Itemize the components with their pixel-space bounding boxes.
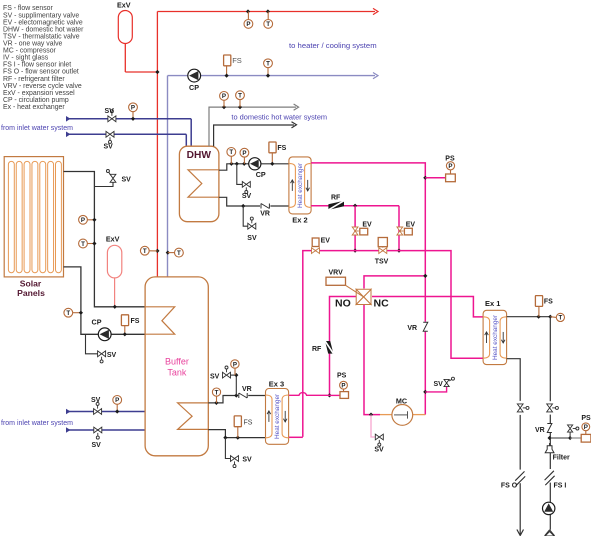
svg-text:PS: PS (337, 373, 347, 380)
svg-text:TSV - thermalstatic valve: TSV - thermalstatic valve (3, 33, 80, 40)
svg-text:Filter: Filter (553, 455, 570, 462)
svg-text:T: T (177, 250, 181, 257)
svg-text:P: P (81, 217, 85, 224)
svg-text:VR: VR (242, 386, 252, 393)
svg-text:T: T (238, 93, 242, 100)
svg-text:SV: SV (91, 397, 101, 404)
svg-text:from inlet water system: from inlet water system (1, 125, 73, 132)
svg-text:SV: SV (242, 457, 252, 464)
svg-text:SV: SV (210, 373, 220, 380)
svg-text:MC: MC (396, 396, 407, 405)
svg-text:VR: VR (260, 211, 270, 218)
svg-text:SV - supplimentary valve: SV - supplimentary valve (3, 12, 79, 19)
svg-text:T: T (559, 315, 563, 322)
svg-text:P: P (115, 397, 119, 404)
svg-text:EV - electomagnetic valve: EV - electomagnetic valve (3, 19, 83, 26)
svg-text:EV: EV (406, 222, 416, 229)
svg-text:DHW: DHW (187, 150, 212, 161)
svg-text:ExV: ExV (106, 234, 120, 243)
svg-text:T: T (266, 21, 270, 28)
svg-text:VR: VR (407, 325, 417, 332)
svg-text:FS I - flow sensor inlet: FS I - flow sensor inlet (3, 62, 71, 69)
svg-text:P: P (341, 383, 345, 390)
svg-text:Ex 2: Ex 2 (292, 215, 307, 224)
svg-text:SV: SV (374, 447, 384, 454)
svg-text:DHW - domestic hot water: DHW - domestic hot water (3, 26, 84, 33)
svg-text:VR - one way valve: VR - one way valve (3, 41, 63, 48)
svg-text:from inlet water system: from inlet water system (1, 420, 73, 427)
svg-text:SV: SV (92, 442, 102, 449)
svg-text:T: T (215, 389, 219, 396)
svg-text:ExV: ExV (117, 1, 131, 10)
svg-text:EV: EV (321, 237, 331, 244)
svg-text:FS - flow sensor: FS - flow sensor (3, 5, 53, 12)
svg-text:NO: NO (335, 297, 351, 309)
svg-text:FS I: FS I (554, 483, 567, 490)
svg-text:RF: RF (331, 194, 341, 201)
svg-text:NC: NC (374, 297, 390, 309)
svg-text:FS: FS (131, 318, 140, 325)
svg-text:IV - sight glass: IV - sight glass (3, 55, 49, 62)
svg-text:VRV - reverse cycle valve: VRV - reverse cycle valve (3, 83, 82, 90)
svg-text:SV: SV (107, 352, 117, 359)
svg-text:T: T (66, 310, 70, 317)
svg-text:FS O - flow sensor outlet: FS O - flow sensor outlet (3, 69, 79, 76)
svg-text:FS: FS (244, 419, 253, 426)
svg-text:CP: CP (256, 170, 266, 179)
svg-text:ExV - expansion vessel: ExV - expansion vessel (3, 90, 75, 97)
svg-text:Panels: Panels (17, 288, 45, 298)
svg-text:P: P (131, 105, 135, 112)
svg-text:PS: PS (581, 415, 591, 422)
svg-text:MC - compressor: MC - compressor (3, 48, 57, 55)
svg-text:Ex 3: Ex 3 (269, 380, 284, 389)
svg-text:P: P (448, 163, 452, 170)
svg-text:RF - refrigerant filter: RF - refrigerant filter (3, 76, 65, 83)
svg-text:Tank: Tank (167, 368, 187, 378)
svg-text:T: T (143, 248, 147, 255)
svg-text:VR: VR (535, 427, 545, 434)
svg-text:to domestic hot water system: to domestic hot water system (231, 113, 327, 122)
svg-text:Ex - heat exchanger: Ex - heat exchanger (3, 104, 65, 111)
svg-text:PS: PS (445, 155, 455, 162)
svg-text:EV: EV (362, 222, 372, 229)
svg-text:Heat exchanger: Heat exchanger (492, 314, 499, 360)
svg-text:SV: SV (242, 193, 252, 200)
svg-text:FS: FS (232, 56, 242, 65)
svg-text:RF: RF (312, 346, 322, 353)
svg-text:P: P (233, 361, 237, 368)
svg-text:SV: SV (434, 381, 444, 388)
svg-text:Buffer: Buffer (165, 357, 189, 367)
svg-text:CP: CP (92, 318, 102, 327)
svg-text:P: P (246, 21, 250, 28)
svg-text:CP: CP (189, 83, 199, 92)
svg-text:FS: FS (544, 299, 553, 306)
svg-text:TSV: TSV (375, 259, 389, 266)
svg-text:T: T (266, 61, 270, 68)
svg-text:Heat exchanger: Heat exchanger (274, 393, 281, 439)
svg-text:T: T (229, 149, 233, 156)
svg-text:FS: FS (277, 145, 286, 152)
svg-text:FS O: FS O (501, 483, 518, 490)
svg-text:P: P (222, 93, 226, 100)
svg-text:SV: SV (247, 235, 257, 242)
svg-text:T: T (81, 241, 85, 248)
svg-text:VRV: VRV (329, 270, 344, 277)
svg-text:Heat exchanger: Heat exchanger (297, 162, 304, 208)
svg-text:SV: SV (104, 143, 114, 150)
svg-text:P: P (242, 150, 246, 157)
svg-text:SV: SV (105, 108, 115, 115)
svg-text:SV: SV (122, 176, 132, 183)
svg-text:Ex 1: Ex 1 (485, 299, 500, 308)
svg-text:to heater / cooling system: to heater / cooling system (289, 41, 377, 50)
svg-text:P: P (584, 424, 588, 431)
svg-text:CP - circulation pump: CP - circulation pump (3, 97, 69, 104)
